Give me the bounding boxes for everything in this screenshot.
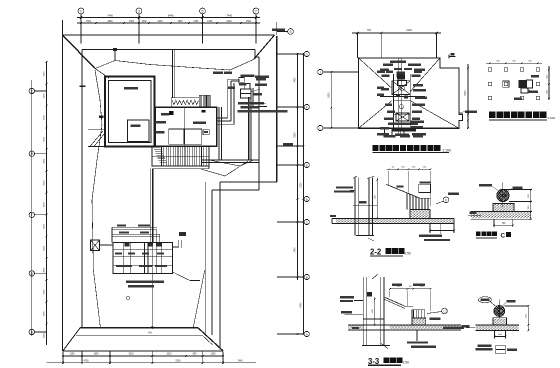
- annotation leaders right side: [251, 89, 260, 92]
- svg-text:9: 9: [290, 30, 292, 34]
- roof valley lines lower: [93, 270, 100, 328]
- svg-text:7400: 7400: [295, 77, 297, 83]
- svg-text:5: 5: [202, 10, 204, 14]
- eave tick marks: [80, 86, 86, 88]
- svg-text:1150: 1150: [70, 354, 76, 356]
- svg-text:7400: 7400: [295, 247, 297, 253]
- water tank dense equipment: [397, 75, 405, 80]
- svg-text:7440: 7440: [237, 360, 243, 362]
- svg-text:B: B: [31, 330, 33, 334]
- machine room cluster: [113, 242, 172, 273]
- pipe detail 2 pipe circle: [494, 306, 505, 317]
- pipe detail 1 top annotations: [479, 184, 492, 187]
- bottom extension lines: [62, 352, 64, 364]
- pipe detail 1 bottom dimension: [493, 219, 495, 227]
- section 3-3 roof slab: [348, 324, 461, 326]
- pipe detail 2 bottom dimension: [494, 331, 496, 339]
- svg-text:3610: 3610: [128, 354, 134, 356]
- main stair block: [152, 146, 209, 166]
- svg-text:1450: 1450: [207, 21, 213, 23]
- section 2-2 foundation pad: [410, 210, 430, 219]
- svg-text:3600: 3600: [43, 245, 45, 251]
- svg-text:A: A: [306, 332, 308, 336]
- section 3-3 right slab text: [443, 327, 464, 329]
- svg-text:7440: 7440: [107, 13, 113, 17]
- svg-text:3600: 3600: [43, 158, 45, 164]
- svg-text:F: F: [31, 213, 33, 217]
- svg-text:2800: 2800: [107, 21, 113, 23]
- section 2-2 bottom right dimension: [429, 224, 431, 233]
- section 3-3 wall: [362, 277, 364, 346]
- pipe bundle: [227, 79, 229, 118]
- svg-text:1150: 1150: [211, 354, 217, 356]
- section 3-3 top dimension: [390, 288, 431, 290]
- svg-text:2-2: 2-2: [370, 248, 382, 257]
- svg-text:F: F: [306, 105, 308, 109]
- svg-text:1:50: 1:50: [404, 251, 411, 255]
- svg-text:2200: 2200: [157, 21, 163, 23]
- right grid dimension lines and bubbles: [297, 53, 299, 280]
- room A inner square: [128, 120, 150, 142]
- pipe detail 2 pad: [493, 318, 507, 325]
- svg-text:3600: 3600: [43, 71, 45, 77]
- water tank equipment: [397, 72, 406, 78]
- roof ridge line: [151, 169, 153, 328]
- pipe detail 2 right dimension: [505, 305, 529, 307]
- section 3-3 foundation pad: [412, 318, 426, 325]
- water tank dense annotations: [390, 61, 406, 63]
- right wing walls: [218, 107, 220, 160]
- svg-text:3600: 3600: [43, 93, 45, 99]
- svg-text:5260: 5260: [175, 360, 181, 362]
- labels in center block: [155, 121, 166, 124]
- svg-text:5400: 5400: [301, 302, 303, 308]
- section 3-3 pad upper: [412, 310, 425, 318]
- svg-text:5200: 5200: [465, 90, 467, 96]
- svg-text:1:50: 1:50: [402, 361, 409, 365]
- svg-text:4760: 4760: [83, 360, 89, 362]
- svg-text:1650: 1650: [93, 354, 99, 356]
- svg-text:1: 1: [80, 10, 82, 14]
- svg-text:3600: 3600: [43, 311, 45, 317]
- svg-text:7440: 7440: [226, 13, 232, 17]
- water tank plan top dimension: [352, 32, 441, 34]
- machine room pipes up: [150, 169, 152, 243]
- svg-text:1900: 1900: [406, 29, 412, 32]
- svg-text:1:100: 1:100: [548, 116, 556, 120]
- leader arc from stair to wing: [200, 161, 248, 176]
- left grid line with bubbles: [31, 80, 33, 336]
- svg-text:3610: 3610: [166, 354, 172, 356]
- water tank plan title: [373, 145, 379, 151]
- pipe detail 2 left annotations: [478, 297, 491, 303]
- roof hip diagonals: [63, 35, 96, 69]
- pipe detail 1 title: [476, 231, 481, 236]
- svg-text:3600: 3600: [43, 202, 45, 208]
- svg-text:3600: 3600: [43, 180, 45, 186]
- pipe detail 2 slab: [475, 324, 519, 326]
- section 3-3 C mark: [442, 308, 448, 314]
- top extension lines: [62, 20, 64, 35]
- pipe detail 1 slab: [471, 210, 532, 212]
- machine room feed pipes: [112, 226, 157, 228]
- cooling tower symbol: [519, 80, 527, 88]
- section 2-2 sloped strut: [386, 184, 420, 198]
- water tank right dimension: [467, 64, 469, 128]
- svg-text:5600: 5600: [328, 92, 330, 98]
- gutter with zigzag: [171, 98, 199, 107]
- svg-text:8440: 8440: [168, 13, 174, 17]
- svg-text:C: C: [501, 232, 506, 239]
- pipe detail 1 pipe circle: [497, 189, 509, 201]
- svg-text:B: B: [306, 275, 308, 279]
- section 3-3 sloped strut: [384, 297, 405, 306]
- bottom dimension lines: [63, 355, 224, 357]
- svg-text:1350: 1350: [193, 21, 199, 23]
- stair flight upper: [199, 95, 210, 107]
- section 2-2 wall: [354, 178, 356, 236]
- section 3-3 bottom leaders: [416, 330, 418, 341]
- water tank corner drain mark: [448, 55, 450, 59]
- svg-text:3600: 3600: [43, 223, 45, 229]
- svg-text:3600: 3600: [43, 114, 45, 120]
- section 2-2 C mark: [443, 197, 449, 203]
- section 2-2 left annotations: [336, 186, 353, 188]
- svg-text:3-3: 3-3: [368, 357, 380, 366]
- main roof plan top grid bubbles: [78, 8, 84, 14]
- svg-text:3600: 3600: [43, 267, 45, 273]
- left dimension line: [46, 62, 48, 345]
- svg-text:5800: 5800: [295, 132, 297, 138]
- wing annotation texts: [213, 72, 223, 75]
- machine room right pipe and notes: [177, 240, 179, 248]
- section 2-2 left slab line: [353, 204, 377, 206]
- pipe detail 1 pad: [493, 204, 514, 212]
- svg-text:2300: 2300: [301, 182, 303, 188]
- water tank plan outline: [359, 58, 463, 128]
- rain leader pipes: [172, 50, 174, 98]
- main plan top dimension lines: [77, 17, 260, 19]
- wing equipment boxes: [239, 78, 245, 84]
- svg-text:750: 750: [367, 29, 372, 32]
- svg-text:1000: 1000: [141, 21, 147, 23]
- svg-text:1800: 1800: [177, 21, 183, 23]
- section 3-3 left annotations: [340, 296, 354, 298]
- pipe detail 2 bottom notes and box: [478, 345, 492, 347]
- extra right-side annotation rows: [255, 76, 269, 79]
- center block walls: [155, 107, 217, 146]
- water tank bottom protrusions: [384, 128, 386, 136]
- top-right grid bubble: [288, 29, 294, 35]
- svg-text:1500: 1500: [86, 21, 92, 23]
- svg-text:3600: 3600: [43, 136, 45, 142]
- water tank annotations: [383, 64, 393, 66]
- svg-text:1500: 1500: [246, 21, 252, 23]
- roof surface lines: [95, 60, 254, 71]
- cooling tower foundation dimension: [486, 62, 542, 64]
- cooling tower right dimension: [548, 66, 550, 100]
- section 2-2 top dimension: [386, 168, 430, 170]
- cooling tower title: [489, 112, 496, 119]
- section 2-2 roof slab: [332, 218, 454, 220]
- svg-text:2400: 2400: [226, 21, 232, 23]
- pipe detail 1 right dimensions: [503, 189, 532, 191]
- section 2-2 detail box: [419, 184, 431, 192]
- inner eave lines: [82, 49, 255, 51]
- section 3-3 inner dim: [374, 297, 376, 325]
- svg-text:3600: 3600: [43, 332, 45, 338]
- machine room left box: [91, 240, 100, 251]
- water tank left grid bubbles: [318, 69, 323, 74]
- svg-text:3: 3: [138, 10, 140, 14]
- roof outer outline: [63, 34, 275, 36]
- cooling tower foundation pads: [488, 68, 491, 71]
- section 2-2 inner dim: [376, 178, 378, 219]
- svg-text:3600: 3600: [43, 289, 45, 295]
- lower apron roof: [80, 327, 198, 329]
- pit rectangles: [169, 129, 184, 144]
- svg-text:1500: 1500: [129, 21, 135, 23]
- svg-text:1:100: 1:100: [442, 148, 451, 152]
- svg-text:7: 7: [255, 10, 257, 14]
- water tank roof diagonals: [359, 58, 392, 88]
- room A walls: [105, 77, 155, 147]
- water tank center pipes: [397, 58, 399, 128]
- water tank center shaft walls: [393, 74, 395, 128]
- svg-text:E: E: [306, 163, 308, 167]
